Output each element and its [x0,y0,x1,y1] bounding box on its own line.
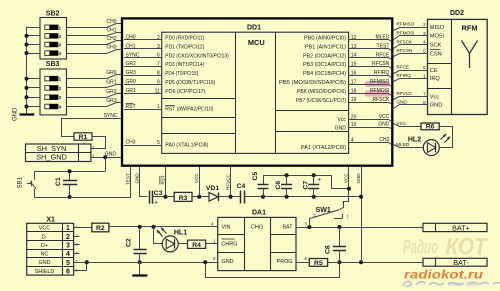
resistor R1 [74,133,92,140]
svg-text:GR0: GR0 [106,70,117,76]
wire net CH3 [67,50,122,54]
svg-text:RFCE: RFCE [397,65,410,70]
junction on ground bus [25,34,29,38]
svg-text:11: 11 [155,88,160,94]
DD1 pin 16 wire net RFIRQ [349,76,392,78]
svg-text:2: 2 [157,35,160,41]
svg-text:PB3 (OC1A/PCI3): PB3 (OC1A/PCI3) [303,62,346,68]
svg-text:14: 14 [351,53,357,59]
svg-text:PB0 (AIN0/PCI0): PB0 (AIN0/PCI0) [304,36,346,42]
wire R1 to SH_SYN pin 1 [91,137,106,149]
svg-text:12: 12 [351,35,357,41]
wire SB1/C1 bottom rail to TEST riser [35,167,131,198]
svg-text:КОТ: КОТ [446,234,489,261]
wire DA1 PROG to R5 [296,262,309,264]
wire R6 to HL2 cathode [440,127,453,148]
DD1 pin 14 wire net RFCE [349,58,392,60]
wire net CH0 [67,24,122,28]
charger IC DA1 body [218,217,296,270]
svg-text:PD5 (OC0B/T1/PCI16): PD5 (OC0B/T1/PCI16) [165,80,215,86]
svg-text:VCC: VCC [379,114,390,120]
DD1 pin 15 wire net RFCSN [349,67,392,69]
svg-text:C5: C5 [252,172,259,181]
svg-text:VIN: VIN [222,224,231,230]
DD1 pin 1 wire net RST [124,109,162,111]
X1 pin 1 wire to R2 [74,227,92,229]
wire net GR3 [67,103,122,107]
svg-text:Vcc: Vcc [430,94,440,100]
capacitor C3 (polarized) [149,191,151,204]
terminal BAT+ [423,223,487,231]
HL1 light arrows [158,231,163,237]
wire net VCC (right) below DD1 [348,167,350,189]
svg-text:PD1 (TXD/PCI12): PD1 (TXD/PCI12) [165,44,204,50]
svg-text:NC: NC [41,252,49,258]
capacitor C5 [263,175,265,184]
svg-text:C4: C4 [237,183,246,190]
wire net GND DD1 to DD2 [394,105,422,109]
wire BAT+ rail DA1 BAT to terminal [296,227,423,229]
svg-text:R6: R6 [426,123,435,130]
svg-text:RFMISO: RFMISO [397,22,415,27]
svg-text:SB2: SB2 [46,10,60,17]
SB3 switch 3 [45,95,58,100]
svg-text:2: 2 [76,234,78,238]
wire net GR1 [67,85,122,88]
wire net GND below DD1 to C3 [140,167,148,197]
svg-text:RST: RST [126,104,136,110]
svg-text:PB5 (MOSI/DI/SDA/PCI5): PB5 (MOSI/DI/SDA/PCI5) [279,80,346,86]
svg-text:VD1: VD1 [206,185,219,192]
svg-text:+: + [154,200,158,207]
wire HL1 anode branch [154,227,163,244]
watermark signature [403,281,500,286]
svg-text:PA1 (XTAL2/PCI9): PA1 (XTAL2/PCI9) [301,145,346,151]
wire VCC top rail of capacitor bank [264,176,349,189]
DD1 pin 10 wire net GND [349,128,392,129]
wire net GND (right) below DD1 [361,167,363,263]
junction RFVCC node [229,195,233,199]
wire net RFMISO DD1 to DD2 [394,28,422,31]
svg-text:6: 6 [157,53,160,59]
HL2 light arrows [441,135,446,140]
junction C2 on GND rail [138,260,142,264]
svg-text:10: 10 [351,122,357,128]
svg-text:GND: GND [39,260,51,266]
wire net RFCE DD1 to DD2 [394,71,422,74]
svg-text:RFMISO: RFMISO [370,79,390,85]
svg-text:6: 6 [66,268,70,275]
resistor R5 [309,259,327,267]
DD1 pin 9 wire net GR0 [124,84,162,86]
MCU module DD1 outer border [122,18,392,165]
svg-text:SCK: SCK [430,43,442,49]
svg-text:GND: GND [334,125,346,131]
capacitor C4 [240,191,242,204]
DD2 pin 4 SCK [421,44,428,46]
svg-text:RFSCK: RFSCK [397,39,414,44]
capacitor C7 (polarized) [312,173,316,177]
X1 pin 2 stub [74,236,80,238]
svg-text:9: 9 [157,79,160,85]
svg-text:CE: CE [430,68,438,74]
highlight mark over RFMOSI wire [365,90,391,96]
DD1 pin 2 wire net CH0 [124,39,162,41]
DD1 pin 7 wire net GR2 [124,66,162,68]
svg-text:RFCSN: RFCSN [372,61,390,67]
wire net GR2 [67,94,122,98]
junction C8 bottom [337,260,341,264]
X1 pin 4 stub [74,253,80,255]
svg-text:RFMOSI: RFMOSI [370,88,389,94]
svg-text:DD2: DD2 [450,10,464,17]
svg-text:GND: GND [378,122,390,128]
DD2 pin 7 Vcc [421,96,428,98]
DD1 pin 3 wire net CH1 [124,48,162,50]
svg-text:DD1: DD1 [247,25,261,32]
svg-text:GR3: GR3 [106,98,117,104]
svg-text:GND: GND [222,259,234,265]
DD1 pin 11 wire net GR1 [124,93,162,95]
SB2 switch 4 [45,51,58,56]
svg-text:CHG: CHG [251,224,263,230]
svg-text:GR2: GR2 [106,89,117,95]
junction VCC node [197,195,201,199]
svg-text:1: 1 [157,104,160,110]
wire SB3 left stub [27,78,41,80]
svg-text:+: + [318,177,322,184]
capacitor C1 [69,171,71,180]
wire net VCC below DD1 to VD1 anode [199,167,201,197]
svg-text:CH2: CH2 [106,36,116,42]
svg-text:VCC: VCC [39,226,50,232]
wire SB2 left stub [27,35,41,37]
svg-text:8: 8 [157,71,160,77]
diode VD1 [209,192,218,201]
svg-text:5: 5 [157,140,160,146]
svg-text:PD0 (RXD/PCI11): PD0 (RXD/PCI11) [165,36,204,42]
svg-text:CHRG: CHRG [222,241,238,247]
svg-text:R3: R3 [179,195,188,202]
svg-text:C8: C8 [325,245,332,254]
svg-text:PD3 (INT1/PCI14): PD3 (INT1/PCI14) [165,62,204,68]
svg-text:CSN: CSN [430,51,442,57]
svg-text:IRQ: IRQ [430,76,441,82]
wire DA1 ground return path to battery minus [206,263,340,278]
wire net MLED to HL2 anode [394,145,424,148]
wire C2 ground stem [139,262,141,275]
SB2 switch 2 [45,34,58,39]
push button SB1 [34,171,36,179]
svg-text:PD6 (ICP/PCI17): PD6 (ICP/PCI17) [165,89,205,95]
svg-text:BAT+: BAT+ [452,223,470,232]
svg-text:R4: R4 [192,242,201,249]
svg-text:RST: RST [160,175,165,184]
junction GND vertical at BAT- rail [359,260,363,264]
svg-text:TEST: TEST [377,43,390,49]
wire SB1/C1 top rail [35,171,106,173]
svg-text:D-: D- [42,234,48,240]
svg-text:PD2 (CKO/XCK/INT0/PCI13): PD2 (CKO/XCK/INT0/PCI13) [165,53,229,59]
wire net VCC to R6 [394,124,422,127]
svg-text:C2: C2 [126,238,133,247]
wire HL1 cathode to R4 [178,243,187,245]
wire SB3 left stub [27,106,41,108]
svg-text:C6: C6 [275,181,282,190]
svg-text:SH_GND: SH_GND [36,153,67,162]
resistor R4 [188,240,206,248]
wire SB3 left stub [27,97,41,99]
svg-text:PB2 (OC0A/PCI2): PB2 (OC0A/PCI2) [303,53,346,59]
junction HL1 branch [152,225,156,229]
svg-text:D+: D+ [41,243,48,249]
LED HL1 [162,236,178,252]
svg-text:PB4 (OC1B/PCI4): PB4 (OC1B/PCI4) [303,71,346,77]
svg-text:R1: R1 [79,134,88,141]
svg-text:SYNC: SYNC [126,52,140,58]
junction on ground bus [25,43,29,47]
DD2 pin 1 IRQ [421,78,428,80]
svg-text:X1: X1 [46,216,55,223]
svg-text:15: 15 [351,62,357,68]
svg-text:CH1: CH1 [126,43,136,49]
svg-text:RFVCC: RFVCC [225,173,230,190]
capacitor C2 [139,227,141,249]
svg-text:CH0: CH0 [106,19,116,25]
svg-text:CH3: CH3 [126,140,136,146]
svg-text:PB7 (UCSK/SCL/PCI7): PB7 (UCSK/SCL/PCI7) [296,98,346,104]
wire VD1 cathode to RFVCC node [218,196,240,198]
X1 pin 5 GND stub [74,262,87,264]
junction X1 GND/SHIELD [85,260,89,264]
DD2 pin 3 MOSI [421,35,428,37]
svg-text:PROG: PROG [277,259,293,265]
junction SH_GND/GND node [103,155,107,159]
X1 pin 3 stub [74,244,80,246]
SB2 switch 3 [45,42,58,47]
svg-text:DA1: DA1 [252,210,266,217]
svg-text:1: 1 [66,225,70,232]
svg-text:radiokot.ru: radiokot.ru [404,267,484,281]
DD2 pin 6 CE [421,70,428,72]
capacitor C8 [339,227,341,246]
svg-text:16: 16 [351,71,357,77]
DD1 pin 18 wire net RFMOSI [349,94,392,96]
junction on ground bus [25,77,29,81]
junction C8 top [337,225,341,229]
junction on ground bus [25,95,29,99]
svg-text:Радио: Радио [403,238,438,259]
svg-text:GR0: GR0 [126,79,137,85]
wire SH_GND to GND net into DD1 border [91,157,122,159]
svg-text:3: 3 [157,44,160,50]
wire net CH1 [67,33,122,36]
svg-text:CH3: CH3 [106,45,116,51]
resistor R6 [421,123,439,130]
DD1 pin 8 wire net GR3 [124,75,162,77]
svg-text:17: 17 [351,79,357,85]
SB3 switch 2 [45,86,58,91]
resistor R3 [166,196,175,198]
switch SW1 [309,219,311,227]
svg-text:C1: C1 [55,177,62,186]
LED HL2 [423,140,439,156]
ground symbol under C2 [132,274,147,276]
svg-text:R2: R2 [96,225,105,232]
svg-text:GND: GND [135,173,140,184]
wire net RFSCK DD1 to DD2 [394,45,422,49]
junction C2 top [138,225,142,229]
wire net RFMOSI DD1 to DD2 [394,36,422,40]
svg-text:RFM: RFM [461,23,477,32]
svg-text:HL2: HL2 [408,136,421,143]
junction on ground bus [25,51,29,55]
DD2 pin 5 CSN [421,53,428,55]
wire GND node down to SB1/C1 top rail [105,157,107,171]
svg-text:RFCE: RFCE [376,52,390,58]
svg-text:PB1 (AIN1/PCI1): PB1 (AIN1/PCI1) [305,44,346,50]
svg-text:VCC: VCC [397,121,408,127]
svg-text:7: 7 [157,62,160,68]
wire SB3 left stub [27,87,41,89]
wire net GR0 [67,75,122,79]
DIP-switch SB3 body [40,69,67,115]
DD2 antenna symbol [462,41,478,54]
svg-text:PB6 (MISO/DO/PCI6): PB6 (MISO/DO/PCI6) [297,89,346,95]
svg-text:SH_SYN: SH_SYN [37,144,67,153]
junction on ground bus [25,86,29,90]
wire R4 to DA1 CHRG pin 1 [206,243,218,245]
svg-text:RFIRQ: RFIRQ [374,70,390,76]
wire net RFIRQ DD1 to DD2 [394,79,422,82]
svg-text:C3: C3 [154,190,163,197]
svg-text:SB1: SB1 [18,176,24,188]
svg-text:18: 18 [351,88,357,94]
wire net SYNC [62,119,122,137]
DD1 pin 12 wire net MLED [349,40,392,42]
svg-text:19: 19 [351,97,357,103]
svg-text:5: 5 [66,260,70,267]
svg-text:4: 4 [66,251,70,258]
junction on ground bus [25,105,29,109]
SB2 switch 1 [45,25,58,30]
wire SB2 left stub [27,53,41,55]
wire SB2 left stub [27,44,41,46]
ground symbol GND (left) [20,113,35,115]
svg-text:RFMOSI: RFMOSI [397,31,415,36]
svg-text:SHIELD: SHIELD [35,269,55,275]
svg-text:GR1: GR1 [126,88,137,94]
DD1 pin 4 wire net CH2 [349,143,392,145]
svg-text:SYNC: SYNC [104,113,118,119]
DD1 pin 19 wire net RFSCK [349,103,392,104]
wire R5 to BAT- terminal [328,262,423,264]
svg-text:GND: GND [13,107,19,121]
SB3 switch 1 [45,76,58,81]
wire ground rail C4 to GND vertical [244,196,361,198]
svg-text:3: 3 [66,243,70,250]
svg-text:4: 4 [351,138,354,144]
DD1 pin 5 wire net CH3 [124,145,162,147]
connector X1 body [27,223,74,275]
svg-text:CH1: CH1 [106,28,116,34]
DD1 pin 13 wire net TEST [349,49,392,51]
svg-text:GND: GND [430,103,442,109]
svg-text:RFVCC: RFVCC [397,91,414,96]
svg-text:R5: R5 [314,260,323,267]
svg-text:GND: GND [356,173,361,184]
svg-text:CH0: CH0 [126,35,136,41]
capacitor C6 [285,173,289,177]
svg-text:RFIRQ: RFIRQ [397,73,412,78]
junction GND rail at DA1 branch [203,260,207,264]
svg-text:MCU: MCU [248,38,265,47]
svg-text:TEST: TEST [125,173,130,185]
svg-text:RFSCK: RFSCK [372,97,390,103]
DD1 pin 20 wire net VCC [349,120,392,122]
svg-text:GR3: GR3 [126,70,137,76]
wire VIN rail R2 to DA1 VIN [109,226,218,228]
svg-text:VCC: VCC [194,173,199,183]
svg-text:C7: C7 [302,181,309,190]
wire R3 to VCC node [192,196,209,198]
connector SH_SYN / SH_GND body [26,144,91,162]
svg-text:MISO: MISO [430,25,445,31]
MCU inner box [162,32,349,153]
svg-text:CH2: CH2 [379,137,389,143]
junction C1 top [68,169,72,173]
wire net CH2 [67,41,122,45]
svg-text:SB3: SB3 [46,61,60,68]
DD1 pin 6 wire net SYNC [124,57,162,59]
svg-text:2: 2 [66,234,70,241]
wire net RST below DD1 [165,167,167,197]
wire net RFCSN DD1 to DD2 [394,54,422,57]
svg-text:GND: GND [397,100,408,105]
svg-text:VCC: VCC [344,173,349,183]
svg-text:MOSI: MOSI [430,34,445,40]
svg-text:RST (dW/PA2/PCI10): RST (dW/PA2/PCI10) [165,106,213,112]
svg-text:SW1: SW1 [316,207,331,214]
DD2 pin 2 MISO [421,27,428,29]
svg-text:MLED: MLED [375,35,389,41]
svg-text:PD4 (T0/PCI15): PD4 (T0/PCI15) [165,71,198,77]
svg-text:PA0 (XTAL1/PCI8): PA0 (XTAL1/PCI8) [165,143,208,149]
junction SW1 branch on BAT+ rail [307,225,311,229]
DD2 pin 8 GND [421,104,428,106]
svg-text:RFCSN: RFCSN [397,48,413,53]
ground bus wire (left of SB2/SB3) [26,27,28,114]
svg-text:GR1: GR1 [106,80,117,86]
junction VCC node right [347,187,351,191]
svg-text:5: 5 [76,260,78,264]
svg-text:Vcc: Vcc [337,117,346,123]
RF module DD2 body [428,19,488,114]
wire GND rail X1 to DA1 [87,262,218,264]
SB3 switch 4 [45,104,58,109]
highlight mark over RFMISO label [365,81,391,87]
junction RST node [164,195,168,199]
svg-text:GR2: GR2 [126,61,137,67]
DIP-switch SB2 body [40,18,67,60]
wire net RFVCC DD1 to DD2 [394,97,422,100]
X1 pin 6 SHIELD wire to GND node [74,263,87,271]
svg-text:HL1: HL1 [174,230,187,237]
junction GND rail dots [261,195,265,199]
wire net RFVCC below DD1 [230,167,232,197]
wire SB2 left stub [27,27,41,29]
junction C1 bottom [68,195,72,199]
